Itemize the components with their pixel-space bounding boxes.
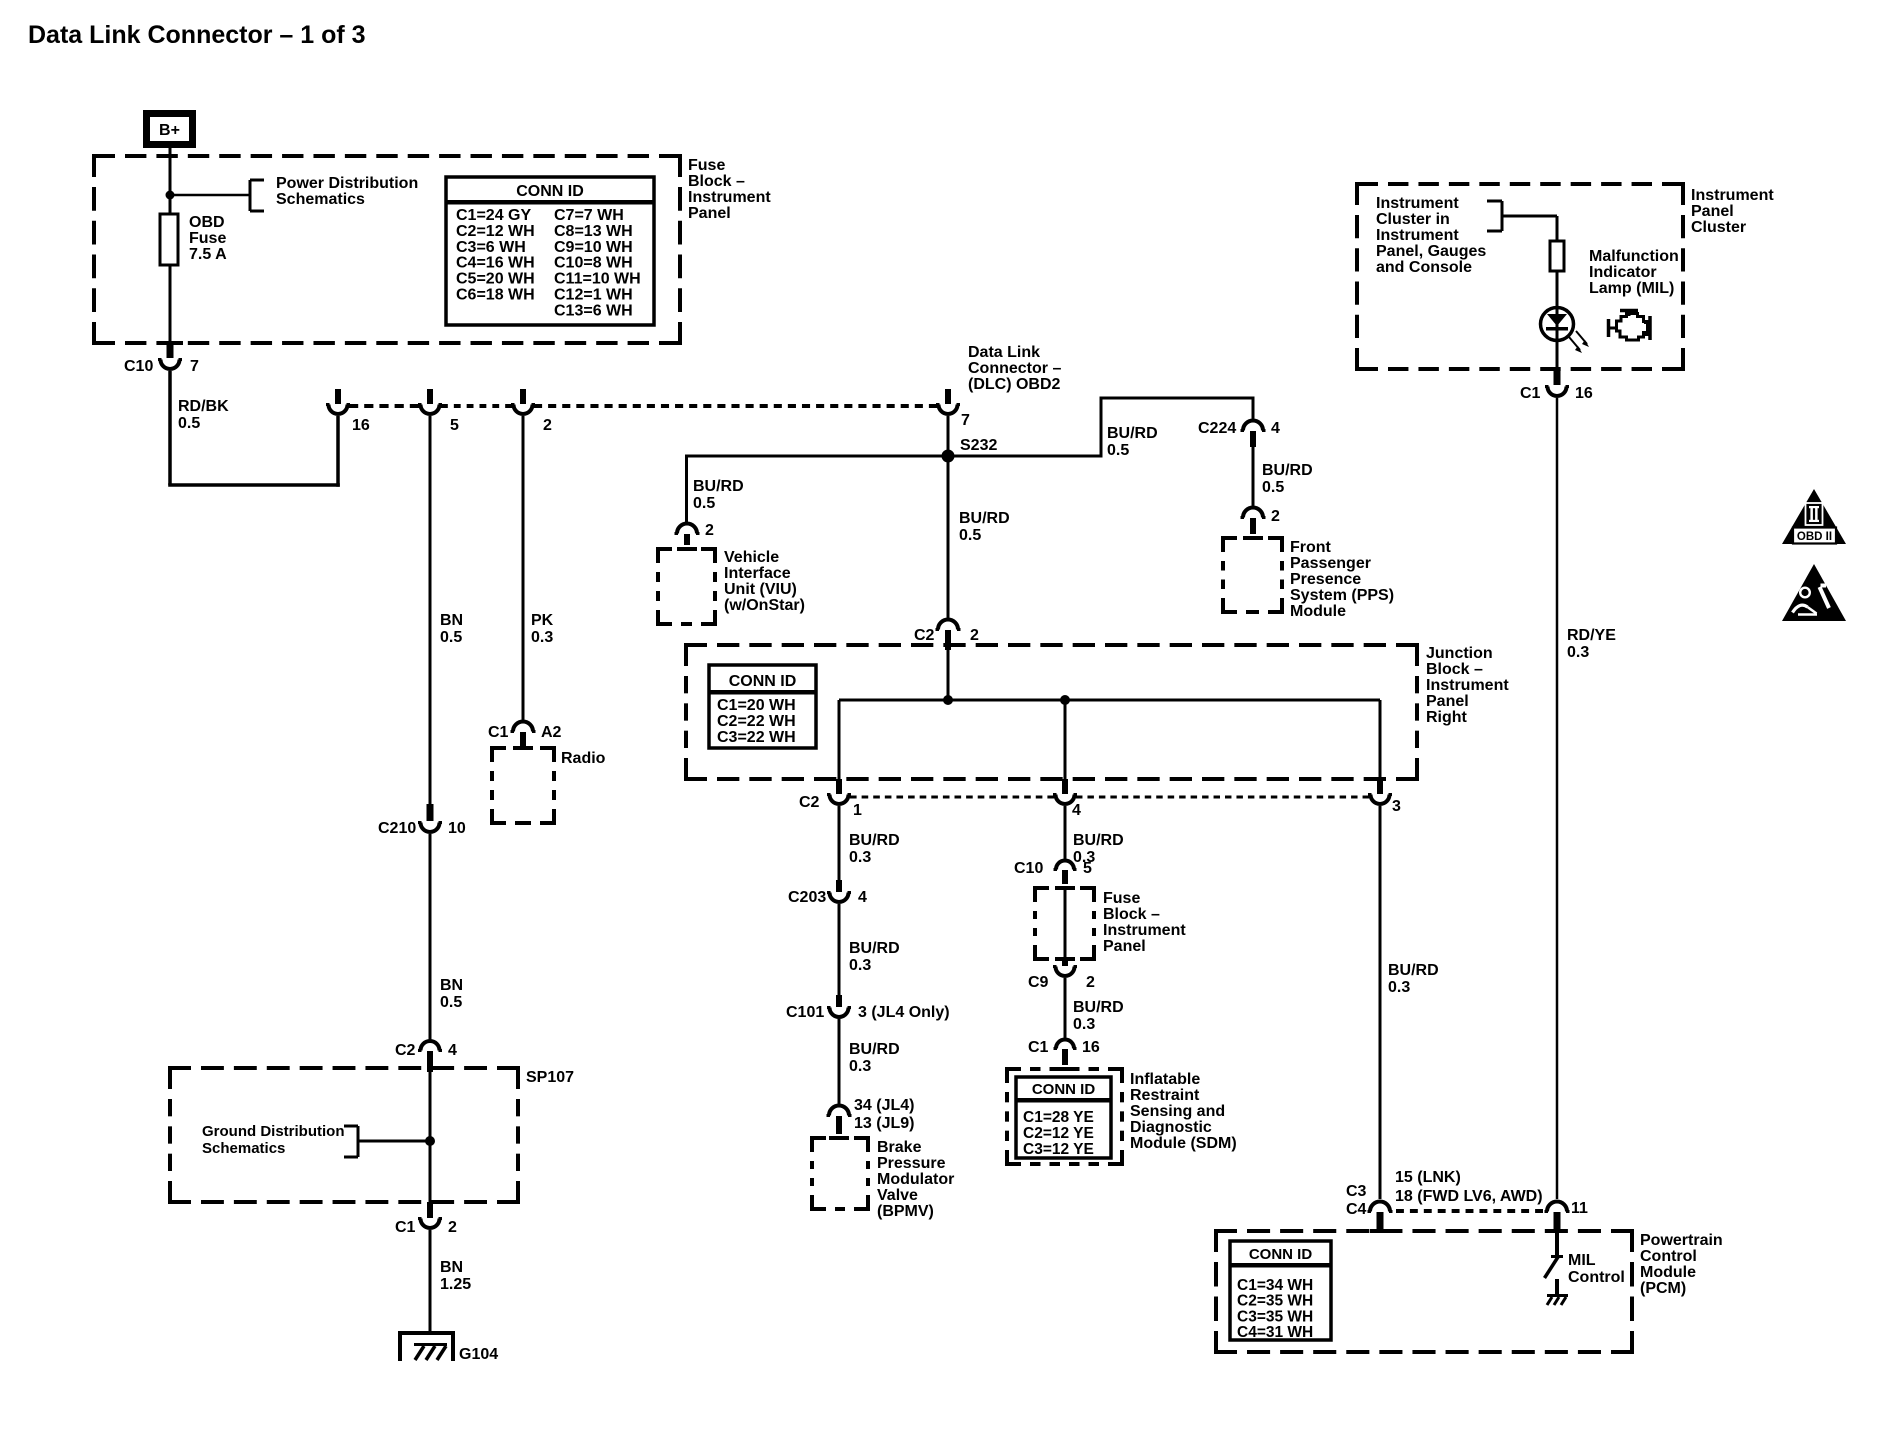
svg-text:Junction: Junction — [1426, 645, 1493, 662]
title Data Link Connector - 1 of 3 — [28, 21, 366, 49]
svg-text:1.25: 1.25 — [440, 1276, 471, 1293]
svg-text:2: 2 — [448, 1219, 457, 1236]
svg-text:3: 3 — [1392, 798, 1401, 815]
table CONN ID junction block — [709, 665, 816, 748]
svg-text:11: 11 — [1571, 1200, 1588, 1217]
svg-text:RD/BK: RD/BK — [178, 398, 229, 415]
svg-text:C224: C224 — [1198, 420, 1236, 437]
svg-text:13 (JL9): 13 (JL9) — [854, 1115, 914, 1132]
svg-text:BU/RD: BU/RD — [849, 1041, 900, 1058]
svg-text:10: 10 — [448, 820, 466, 837]
svg-text:0.3: 0.3 — [849, 1058, 871, 1075]
dashed connector line junction block bottom — [850, 796, 1369, 799]
svg-text:Block –: Block – — [688, 173, 745, 190]
svg-text:Vehicle: Vehicle — [724, 549, 779, 566]
component box Radio — [490, 748, 556, 823]
svg-text:Malfunction: Malfunction — [1589, 248, 1679, 265]
svg-text:BN: BN — [440, 1259, 463, 1276]
svg-text:C101: C101 — [786, 1004, 824, 1021]
svg-text:C3=22 WH: C3=22 WH — [717, 729, 796, 746]
svg-text:C9=10 WH: C9=10 WH — [554, 239, 633, 256]
label Vehicle Interface Unit (VIU) (w/OnStar) — [724, 549, 805, 614]
svg-text:Valve: Valve — [877, 1187, 918, 1204]
svg-text:2: 2 — [543, 417, 552, 434]
connector C2 pin 2 junction block — [936, 620, 961, 651]
tbar into PPS — [1243, 536, 1263, 540]
svg-text:Connector –: Connector – — [968, 360, 1061, 377]
wire C203 to C101 — [838, 904, 841, 997]
svg-text:C1: C1 — [395, 1219, 416, 1236]
component box SDM — [1005, 1069, 1124, 1164]
label pin 5 — [450, 417, 459, 434]
label pin 4 — [1271, 420, 1280, 437]
connector C1 pin 2 below SP107 — [418, 1202, 442, 1228]
label C2 — [799, 794, 820, 811]
wire C224 to PPS — [1252, 447, 1255, 509]
svg-text:Cluster in: Cluster in — [1376, 211, 1450, 228]
svg-text:16: 16 — [352, 417, 370, 434]
wire label BU/RD 0.3 — [1388, 962, 1439, 996]
wire below MIL switch — [1555, 1279, 1559, 1295]
svg-text:C12=1 WH: C12=1 WH — [554, 287, 633, 304]
svg-text:C3=35 WH: C3=35 WH — [1237, 1308, 1313, 1325]
component box SP107 splice pack — [168, 1068, 520, 1202]
junction node bus left — [943, 695, 953, 705]
svg-text:Data Link Connector – 1 of 3: Data Link Connector – 1 of 3 — [28, 21, 366, 49]
svg-text:C1: C1 — [1028, 1039, 1049, 1056]
label pin 3 — [1392, 798, 1401, 815]
table CONN ID SDM — [1016, 1077, 1111, 1158]
label Instrument Panel Cluster — [1691, 187, 1774, 236]
connector C203 pin 4 — [827, 880, 851, 902]
svg-text:Indicator: Indicator — [1589, 264, 1657, 281]
svg-text:A2: A2 — [541, 724, 562, 741]
svg-text:C6=18 WH: C6=18 WH — [456, 287, 535, 304]
svg-text:and Console: and Console — [1376, 259, 1472, 276]
svg-text:7.5 A: 7.5 A — [189, 246, 227, 263]
svg-text:4: 4 — [448, 1042, 457, 1059]
svg-text:0.5: 0.5 — [440, 994, 462, 1011]
svg-text:2: 2 — [705, 522, 714, 539]
label pin A2 — [541, 724, 562, 741]
label C1 — [1028, 1039, 1049, 1056]
wire LED to C1 pin 16 — [1556, 341, 1559, 369]
svg-text:C1=34 WH: C1=34 WH — [1237, 1277, 1313, 1294]
reference bracket Ground Distribution Schematics — [344, 1126, 358, 1157]
wire S232 to C224 — [1100, 398, 1255, 458]
svg-text:CONN ID: CONN ID — [516, 183, 584, 200]
svg-text:(BPMV): (BPMV) — [877, 1203, 934, 1220]
svg-text:C2: C2 — [914, 627, 935, 644]
label Radio — [561, 750, 606, 767]
fuse OBD 7.5A — [160, 214, 178, 265]
wire through small fuse block — [1064, 890, 1067, 957]
svg-text:Instrument: Instrument — [1376, 195, 1459, 212]
svg-text:BU/RD: BU/RD — [1388, 962, 1439, 979]
svg-text:Brake: Brake — [877, 1139, 922, 1156]
wire label BU/RD 0.3 — [1073, 832, 1124, 866]
label pin 16 — [1082, 1039, 1100, 1056]
svg-text:C4=16 WH: C4=16 WH — [456, 255, 535, 272]
svg-text:4: 4 — [1072, 802, 1081, 819]
svg-text:C2=12 YE: C2=12 YE — [1023, 1125, 1094, 1142]
svg-text:34 (JL4): 34 (JL4) — [854, 1097, 914, 1114]
label C210 — [378, 820, 416, 837]
label S232 — [960, 437, 997, 454]
svg-text:Control: Control — [1640, 1248, 1697, 1265]
svg-text:C1=28 YE: C1=28 YE — [1023, 1109, 1094, 1126]
connector DLC pin 2 — [511, 389, 535, 414]
svg-text:Panel: Panel — [688, 205, 731, 222]
tbar into radio — [513, 746, 533, 750]
wire pin4 to C10 — [1064, 806, 1067, 860]
svg-text:2: 2 — [1086, 974, 1095, 991]
svg-text:OBD II: OBD II — [1797, 531, 1832, 543]
label Brake Pressure Modulator Valve (BPMV) — [877, 1139, 954, 1220]
svg-text:Data Link: Data Link — [968, 344, 1040, 361]
connector pin into BPMV — [827, 1106, 852, 1135]
label Front Passenger Presence System (PPS) Module — [1290, 539, 1394, 620]
dashed connector line DLC — [349, 404, 937, 408]
svg-text:Restraint: Restraint — [1130, 1087, 1200, 1104]
svg-text:5: 5 — [450, 417, 459, 434]
svg-text:Front: Front — [1290, 539, 1332, 556]
svg-text:Schematics: Schematics — [202, 1140, 285, 1157]
label pin 10 — [448, 820, 466, 837]
svg-text:18 (FWD LV6, AWD): 18 (FWD LV6, AWD) — [1395, 1188, 1543, 1205]
label pins 34 JL4 13 JL9 — [854, 1097, 914, 1132]
label Malfunction Indicator Lamp (MIL) — [1589, 248, 1679, 297]
label pin 1 — [853, 802, 862, 819]
label C224 — [1198, 420, 1236, 437]
svg-text:C203: C203 — [788, 889, 826, 906]
svg-text:1: 1 — [853, 802, 862, 819]
svg-text:Right: Right — [1426, 709, 1468, 726]
wire bus drop 4 — [1064, 700, 1067, 780]
svg-text:BU/RD: BU/RD — [1107, 425, 1158, 442]
connector DLC pin 5 — [418, 389, 442, 414]
table CONN ID fuse block — [446, 177, 654, 325]
svg-text:Fuse: Fuse — [1103, 890, 1140, 907]
component box Front Passenger Presence System Module — [1221, 538, 1284, 612]
label Fuse Block - Instrument Panel small — [1103, 890, 1186, 955]
label C101 — [786, 1004, 824, 1021]
component box Powertrain Control Module — [1214, 1231, 1634, 1352]
label Data Link Connector (DLC) OBD2 — [968, 344, 1061, 393]
svg-text:B+: B+ — [159, 122, 180, 139]
svg-text:BN: BN — [440, 977, 463, 994]
reference bracket Power Distribution Schematics — [250, 180, 264, 211]
label pin 2 — [705, 522, 714, 539]
svg-text:C9: C9 — [1028, 974, 1049, 991]
svg-text:7: 7 — [961, 412, 970, 429]
svg-text:C3: C3 — [1346, 1183, 1367, 1200]
symbol airbag warning triangle — [1782, 564, 1846, 621]
svg-text:0.5: 0.5 — [1262, 479, 1284, 496]
label pin 3 JL4 only — [858, 1004, 950, 1021]
svg-text:Power Distribution: Power Distribution — [276, 175, 418, 192]
label pin 2 — [448, 1219, 457, 1236]
ground chassis in PCM — [1547, 1296, 1568, 1306]
svg-text:C11=10 WH: C11=10 WH — [554, 271, 641, 288]
svg-text:Module: Module — [1640, 1264, 1696, 1281]
tbar C3/C4 into PCM — [1370, 1229, 1390, 1233]
svg-text:Panel: Panel — [1691, 203, 1734, 220]
svg-text:BU/RD: BU/RD — [1073, 999, 1124, 1016]
label OBD Fuse 7.5 A — [189, 214, 227, 263]
wire label BU/RD 0.3 — [849, 940, 900, 974]
svg-text:Block –: Block – — [1426, 661, 1483, 678]
label pin 11 — [1571, 1200, 1588, 1217]
svg-text:16: 16 — [1575, 385, 1593, 402]
connector DLC pin 7 — [936, 389, 960, 414]
tbar into BPMV — [829, 1136, 849, 1140]
svg-text:Block –: Block – — [1103, 906, 1160, 923]
wire to ground distribution bracket — [358, 1140, 430, 1143]
svg-text:Panel, Gauges: Panel, Gauges — [1376, 243, 1486, 260]
label pin 2 — [1086, 974, 1095, 991]
label Inflatable Restraint Sensing and Diagnostic Module (SDM) — [1130, 1071, 1237, 1152]
svg-text:Powertrain: Powertrain — [1640, 1232, 1723, 1249]
svg-text:0.3: 0.3 — [531, 629, 553, 646]
junction block bus — [839, 699, 1380, 702]
svg-text:C8=13 WH: C8=13 WH — [554, 223, 633, 240]
wire label BU/RD 0.3 — [1073, 999, 1124, 1033]
connector C9 pin 2 — [1053, 959, 1077, 976]
svg-text:0.5: 0.5 — [178, 415, 200, 432]
svg-text:BU/RD: BU/RD — [1262, 462, 1313, 479]
connector C10 pin 7 — [157, 341, 183, 369]
svg-text:C3=12 YE: C3=12 YE — [1023, 1141, 1094, 1158]
tbar into SDM — [1055, 1067, 1075, 1071]
junction node on B+ feed — [166, 191, 175, 200]
svg-text:C13=6 WH: C13=6 WH — [554, 302, 633, 319]
wire label BN 0.5 lower — [440, 977, 463, 1011]
label pin 16 — [352, 417, 370, 434]
connector C1 pin 16 below cluster — [1545, 371, 1569, 396]
wire label RD/BK 0.5 — [178, 398, 229, 432]
svg-text:MIL: MIL — [1568, 1252, 1596, 1269]
svg-text:2: 2 — [970, 627, 979, 644]
svg-text:Instrument: Instrument — [1103, 922, 1186, 939]
lamp filament resistor — [1550, 241, 1564, 271]
svg-text:Passenger: Passenger — [1290, 555, 1371, 572]
svg-text:(PCM): (PCM) — [1640, 1280, 1686, 1297]
connector C2 pin 4 into SP107 — [418, 1041, 442, 1072]
svg-text:OBD: OBD — [189, 214, 225, 231]
label 15 LNK 18 FWD — [1395, 1169, 1543, 1205]
wire B+ to OBD fuse — [169, 148, 172, 216]
svg-text:Pressure: Pressure — [877, 1155, 946, 1172]
label pin 2 — [970, 627, 979, 644]
connector pin 3 — [1368, 779, 1392, 804]
connector C1 pin 16 into SDM — [1054, 1040, 1077, 1066]
ground G104 — [398, 1331, 455, 1361]
svg-text:C210: C210 — [378, 820, 416, 837]
tbar pin11 into PCM — [1547, 1229, 1567, 1233]
wire resistor to LED — [1556, 271, 1559, 308]
label pin 4 — [448, 1042, 457, 1059]
svg-text:Interface: Interface — [724, 565, 791, 582]
svg-text:BN: BN — [440, 612, 463, 629]
svg-text:C10: C10 — [1014, 860, 1043, 877]
wire label PK 0.3 — [531, 612, 554, 646]
connector DLC pin 16 — [326, 389, 350, 414]
wire RD/YE to PCM pin 11 — [1556, 398, 1559, 1199]
connector pin 4 — [1053, 779, 1077, 804]
svg-text:Unit (VIU): Unit (VIU) — [724, 581, 797, 598]
svg-text:C7=7 WH: C7=7 WH — [554, 207, 624, 224]
svg-text:Control: Control — [1568, 1269, 1625, 1286]
svg-text:CONN ID: CONN ID — [1032, 1081, 1096, 1098]
svg-text:Fuse: Fuse — [189, 230, 226, 247]
svg-text:BU/RD: BU/RD — [693, 478, 744, 495]
svg-text:BU/RD: BU/RD — [959, 510, 1010, 527]
connector pin 11 into PCM — [1545, 1202, 1570, 1230]
svg-text:Ground Distribution: Ground Distribution — [202, 1123, 344, 1140]
connector pin 2 VIU — [675, 524, 700, 546]
label C1 — [1520, 385, 1541, 402]
svg-text:System (PPS): System (PPS) — [1290, 587, 1394, 604]
svg-text:0.3: 0.3 — [1567, 644, 1589, 661]
svg-text:C5=20 WH: C5=20 WH — [456, 271, 535, 288]
svg-text:0.3: 0.3 — [1388, 979, 1410, 996]
label pin 16 — [1575, 385, 1593, 402]
wire BN to C2 — [429, 834, 432, 1041]
label C10 — [1014, 860, 1043, 877]
svg-text:CONN ID: CONN ID — [729, 673, 797, 690]
component box Junction Block - Instrument Panel Right — [684, 645, 1419, 779]
svg-text:Panel: Panel — [1426, 693, 1469, 710]
label SP107 — [526, 1069, 574, 1086]
svg-text:CONN ID: CONN ID — [1249, 1246, 1313, 1263]
svg-text:Module (SDM): Module (SDM) — [1130, 1135, 1237, 1152]
svg-text:Diagnostic: Diagnostic — [1130, 1119, 1212, 1136]
component box Fuse Block - Instrument Panel small — [1033, 888, 1096, 959]
svg-text:15 (LNK): 15 (LNK) — [1395, 1169, 1461, 1186]
wire BN 1.25 to ground — [429, 1230, 432, 1333]
connector C1 pin A2 radio — [511, 722, 536, 747]
svg-text:Modulator: Modulator — [877, 1171, 954, 1188]
connector pin 2 PPS — [1241, 508, 1266, 535]
component box Vehicle Interface Unit — [656, 549, 717, 624]
wire S232 to C2 — [947, 456, 950, 620]
svg-text:16: 16 — [1082, 1039, 1100, 1056]
svg-text:C1=20 WH: C1=20 WH — [717, 697, 796, 714]
wire from DLC pin 7 to S232 — [947, 416, 950, 456]
svg-text:Instrument: Instrument — [1426, 677, 1509, 694]
wire PK from DLC pin 2 — [522, 416, 525, 722]
svg-text:C1=24 GY: C1=24 GY — [456, 207, 531, 224]
wire C2 pin2 into junction block — [947, 650, 950, 700]
label pin 4 — [858, 889, 867, 906]
component box Instrument Panel Cluster — [1355, 184, 1685, 369]
tbar out of small fuse block — [1055, 957, 1075, 961]
svg-text:Cluster: Cluster — [1691, 219, 1746, 236]
svg-text:RD/YE: RD/YE — [1567, 627, 1616, 644]
label Instrument Cluster in Instrument Panel Gauges and Console — [1376, 195, 1486, 276]
label MIL Control — [1568, 1252, 1625, 1286]
svg-text:C10: C10 — [124, 358, 153, 375]
wire label BU/RD 0.5 center — [959, 510, 1010, 544]
wire label BU/RD 0.3 — [849, 1041, 900, 1075]
component box Brake Pressure Modulator Valve — [810, 1138, 870, 1209]
svg-text:S232: S232 — [960, 437, 997, 454]
svg-text:C2=35 WH: C2=35 WH — [1237, 1293, 1313, 1310]
svg-text:0.5: 0.5 — [693, 495, 715, 512]
wire C101 to BPMV — [838, 1019, 841, 1106]
svg-text:C2=12 WH: C2=12 WH — [456, 223, 535, 240]
label G104 — [459, 1346, 498, 1363]
tbar into small fuse block — [1055, 886, 1075, 890]
wire bus drop 1 — [838, 700, 841, 780]
label pin 2 — [543, 417, 552, 434]
label Powertrain Control Module (PCM) — [1640, 1232, 1723, 1297]
svg-text:PK: PK — [531, 612, 554, 629]
svg-text:7: 7 — [190, 358, 199, 375]
wire bracket to lamp — [1501, 216, 1558, 241]
svg-text:Inflatable: Inflatable — [1130, 1071, 1200, 1088]
svg-text:C2: C2 — [799, 794, 820, 811]
label C10 — [124, 358, 153, 375]
wire label BU/RD 0.5 PPS — [1262, 462, 1313, 496]
wire label BU/RD 0.3 — [849, 832, 900, 866]
svg-text:SP107: SP107 — [526, 1069, 574, 1086]
wire label BN 0.5 — [440, 612, 463, 646]
svg-text:C1: C1 — [488, 724, 509, 741]
label pin 4 — [1072, 802, 1081, 819]
label C2 — [395, 1042, 416, 1059]
connector C101 pin 3 — [827, 995, 851, 1017]
wire label BN 1.25 — [440, 1259, 471, 1293]
svg-text:Instrument: Instrument — [1376, 227, 1459, 244]
LED malfunction indicator lamp — [1541, 308, 1574, 342]
wire to VIU — [685, 455, 688, 523]
label Power Distribution Schematics — [276, 175, 418, 208]
svg-text:BU/RD: BU/RD — [849, 832, 900, 849]
svg-text:C3=6 WH: C3=6 WH — [456, 239, 526, 256]
svg-text:0.3: 0.3 — [1073, 1016, 1095, 1033]
svg-text:Sensing and: Sensing and — [1130, 1103, 1225, 1120]
svg-text:5: 5 — [1083, 860, 1092, 877]
svg-text:0.3: 0.3 — [849, 849, 871, 866]
svg-text:0.5: 0.5 — [959, 527, 981, 544]
wire inside SP107 — [429, 1072, 432, 1202]
wire RD/BK from C10 to DLC pin 16 — [168, 371, 340, 487]
svg-text:Instrument: Instrument — [688, 189, 771, 206]
svg-text:Radio: Radio — [561, 750, 606, 767]
wire label RD/YE 0.3 — [1567, 627, 1616, 661]
svg-text:C1: C1 — [1520, 385, 1541, 402]
svg-text:0.3: 0.3 — [849, 957, 871, 974]
dashed connector line PCM top — [1396, 1209, 1543, 1213]
label C1 — [395, 1219, 416, 1236]
svg-text:0.5: 0.5 — [1107, 442, 1129, 459]
label C1 — [488, 724, 509, 741]
reference bracket instrument cluster — [1487, 201, 1502, 231]
LED light arrows — [1569, 331, 1589, 353]
junction node bus right — [1060, 695, 1070, 705]
svg-text:BU/RD: BU/RD — [849, 940, 900, 957]
svg-text:2: 2 — [1271, 508, 1280, 525]
table CONN ID PCM — [1230, 1241, 1331, 1341]
label pin 7 — [961, 412, 970, 429]
icon check engine — [1608, 310, 1650, 340]
connector C10 pin 5 into fuse block — [1054, 861, 1077, 885]
label Fuse Block - Instrument Panel — [688, 157, 771, 222]
svg-text:(DLC) OBD2: (DLC) OBD2 — [968, 376, 1061, 393]
svg-text:Panel: Panel — [1103, 938, 1146, 955]
